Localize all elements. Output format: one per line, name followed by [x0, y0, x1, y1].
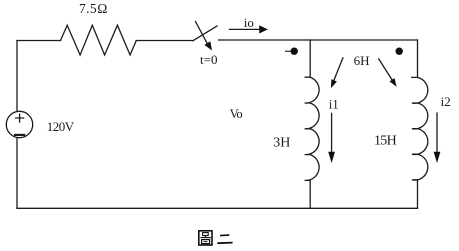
switch arrow head (t=0) [204, 41, 212, 50]
resistor R1 zigzag [61, 25, 137, 55]
inductor L1 (3H) top stub [305, 40, 310, 77]
polarity dot tail for L1 [286, 50, 291, 52]
svg-text:7.5Ω: 7.5Ω [79, 1, 108, 16]
polarity dot of L1 [291, 48, 298, 55]
wire: top-left rail from source to resistor [17, 40, 61, 42]
caption glyph tu (figure) [199, 231, 212, 245]
svg-text:6H: 6H [354, 53, 370, 68]
svg-text:i2: i2 [441, 94, 451, 109]
polarity dot of L2 [396, 48, 403, 55]
wire: top rail right of switch [219, 39, 418, 41]
svg-text:15H: 15H [374, 134, 397, 149]
wire: from resistor to switch [136, 40, 193, 42]
inductor L1 (3H) bottom stub [309, 180, 311, 208]
i2 current arrow line [436, 113, 438, 153]
svg-text:t=0: t=0 [200, 52, 217, 67]
i2 arrow head [434, 152, 441, 163]
voltage source V1 circle [6, 111, 32, 137]
svg-text:120V: 120V [47, 119, 75, 134]
io current arrow line [230, 28, 260, 30]
wire: left vertical from top rail down to source [16, 41, 18, 112]
i1 arrow head [328, 152, 335, 163]
voltage source minus mark [15, 134, 24, 136]
svg-text:Vo: Vo [230, 107, 243, 121]
wire: bottom rail [17, 207, 418, 209]
svg-text:i1: i1 [329, 96, 339, 111]
switch closing arrow t=0 line [196, 22, 208, 44]
voltage source plus mark [16, 114, 24, 122]
inductor L2 (15H) bottom stub [417, 180, 419, 209]
i1 current arrow line [331, 113, 333, 153]
wire: left vertical from source to bottom rail [16, 138, 18, 209]
mutual inductance arrow to L1 [334, 58, 343, 81]
inductor L2 (15H) coil loops [412, 77, 428, 180]
mutual arrow head at L1 [331, 79, 337, 88]
io arrow head [259, 25, 268, 33]
svg-text:io: io [244, 15, 254, 30]
mutual inductance arrow to L2 [379, 59, 393, 80]
caption glyph er (two) [217, 235, 232, 243]
inductor L1 (3H) coil loops [305, 77, 320, 180]
switch SW blade (open) [193, 26, 217, 41]
inductor L2 (15H) top stub [412, 40, 418, 77]
svg-text:3H: 3H [273, 136, 290, 151]
mutual arrow head at L2 [390, 78, 397, 87]
